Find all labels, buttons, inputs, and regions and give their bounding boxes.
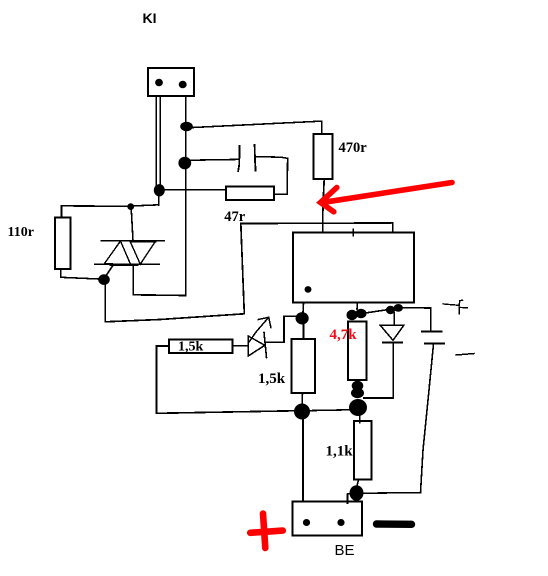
- wire node (159,190) to 47r left end: [165, 189, 226, 191]
- wire left down and along bottom to node B: [156, 346, 294, 413]
- wire LED cathode to node A: [267, 316, 296, 342]
- wire node G hook into BE box: [348, 494, 352, 504]
- wire 110r bottom to gate node: [61, 269, 99, 279]
- wire dot C to dot D diagonal: [362, 309, 392, 314]
- module inner dot: [305, 286, 312, 293]
- wire capacitor C2 bottom lead down to node G rail: [364, 344, 434, 493]
- svg-text:1,1k: 1,1k: [326, 444, 354, 460]
- wire 1,5k right to LED: [232, 345, 248, 347]
- LED D2 cathode bar: [264, 333, 267, 358]
- node dot F (358,407): [349, 399, 367, 416]
- wire rail y=223 over module box: [241, 223, 393, 232]
- wire node F to 1,1k top: [359, 415, 361, 423]
- capacitor C1 right plate: [255, 145, 256, 170]
- resistor 110r: [55, 217, 71, 269]
- svg-text:1,5k: 1,5k: [258, 371, 286, 387]
- red arrow: [321, 183, 453, 212]
- resistor 470r: [314, 134, 333, 179]
- minus bar (thick black): [377, 520, 412, 528]
- wire gate node down, bottom loop, up to 47r rail: [105, 223, 244, 321]
- resistor 1,5k horizontal: [169, 339, 232, 353]
- wire 110r top rail: [62, 205, 159, 218]
- plus mark (thin): [443, 300, 468, 313]
- wire node B down to BE box: [302, 419, 304, 502]
- relay KI box: [148, 68, 194, 96]
- wire capacitor right to 47r right end: [256, 157, 288, 195]
- svg-text:1,5k: 1,5k: [178, 340, 204, 355]
- svg-text:110r: 110r: [8, 225, 34, 240]
- diode D1 triangle: [380, 325, 404, 340]
- wire 1,5k bottom to node B: [301, 393, 303, 404]
- node dot C (356,314): [347, 310, 358, 320]
- red plus sign: [250, 514, 283, 549]
- wire KI right pin down long vertical: [133, 96, 185, 296]
- module bottom lead left: [302, 303, 305, 313]
- wire node (159,190) stub down to 110r wire: [158, 196, 160, 205]
- wire from node (186,126) to 470r top: [193, 121, 322, 134]
- node dot E (357,389): [352, 381, 364, 391]
- node small dot (130,206): [127, 203, 134, 210]
- node gate dot (104,279): [98, 274, 110, 285]
- node dot G (356,493): [350, 485, 364, 501]
- resistor 1,5k vertical: [292, 339, 316, 393]
- KI pin dot left: [155, 79, 163, 87]
- wire dot A to 1,5k top: [303, 323, 305, 339]
- wire node B to node F: [310, 409, 349, 412]
- LED D2 triangle: [248, 336, 264, 356]
- node dot at (186,126): [180, 122, 193, 131]
- node dot B (302,411): [294, 404, 310, 420]
- capacitor C1 left plate: [238, 146, 239, 171]
- svg-text:470r: 470r: [339, 140, 368, 156]
- module bottom lead mid: [356, 303, 359, 310]
- triac triangle up: [105, 241, 131, 265]
- capacitor C2 bottom plate: [425, 342, 444, 344]
- node dot D (394,309): [386, 306, 395, 314]
- wire double line from KI left pin down to node at (159,190): [156, 96, 160, 189]
- battery BE box: [293, 502, 363, 536]
- diode D1 cathode bar: [383, 342, 402, 344]
- module top tick: [352, 229, 354, 235]
- triac triangle down: [130, 241, 156, 264]
- node dot A (302,318): [296, 312, 309, 324]
- svg-text:KI: KI: [143, 10, 157, 26]
- node dot at (159,190): [154, 184, 165, 196]
- resistor 47r: [226, 186, 274, 200]
- wire 470r bottom lead down to module box: [323, 179, 325, 232]
- node dot at (185,163): [178, 157, 191, 170]
- wire small dot down to triac MT1: [131, 210, 133, 240]
- svg-text:47r: 47r: [224, 209, 246, 225]
- svg-text:BE: BE: [335, 542, 355, 559]
- minus mark (thin): [456, 354, 474, 356]
- KI pin dot right: [179, 81, 187, 89]
- wire dot D to capacitor C2: [402, 308, 431, 331]
- diode D1 top lead: [393, 313, 395, 325]
- module box (regulator): [293, 233, 414, 303]
- BE pin dot right: [337, 519, 344, 526]
- wire 1,1k bottom to node G: [357, 480, 359, 487]
- capacitor C2 top plate: [422, 330, 442, 332]
- wire left lead of 1,5k horizontal: [157, 345, 170, 347]
- LED arrow: [249, 317, 271, 342]
- triac MT2 bottom bar: [95, 263, 159, 265]
- resistor 1,1k: [354, 421, 372, 480]
- triac MT1 top bar: [102, 240, 165, 242]
- wire diode bottom to node E: [364, 344, 393, 398]
- BE pin dot left: [303, 519, 310, 526]
- triac gate lead: [105, 265, 114, 278]
- resistor 4,7k: [348, 321, 367, 380]
- svg-text:4,7k: 4,7k: [330, 327, 358, 343]
- wire from node (185,163) to capacitor left plate: [191, 158, 239, 161]
